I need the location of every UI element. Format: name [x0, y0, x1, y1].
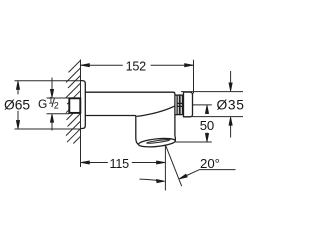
svg-text:115: 115 [109, 157, 129, 171]
G 1/2 top arrow [51, 78, 53, 91]
neck lines to collar [175, 95, 177, 115]
body top line [85, 92, 175, 141]
angle pointer left leader [140, 179, 159, 181]
wall hatching [66, 60, 81, 143]
plumb extension line [164, 145, 166, 190]
spout outlet outer rim [138, 137, 176, 148]
diameter 65 dimension line [17, 81, 19, 129]
20 degree slant line [166, 145, 182, 186]
dimension 115 line [81, 162, 165, 164]
dimension 115 left arrow [81, 161, 90, 164]
svg-text:20°: 20° [200, 156, 220, 171]
svg-text:G: G [38, 97, 47, 111]
svg-text:50: 50 [200, 118, 214, 133]
underbody taper curve [137, 106, 175, 117]
dimension 50 line [206, 105, 208, 142]
wall face line [80, 60, 82, 168]
svg-text:Ø65: Ø65 [4, 97, 30, 112]
dimension 152 right extension line [193, 60, 195, 94]
diameter 65 extension lines [15, 81, 81, 129]
angle pointer right leader [187, 170, 236, 176]
G 1/2 bottom arrow [51, 122, 53, 131]
dimension 115 right arrow [157, 161, 166, 164]
diameter 35 top arrow [230, 71, 232, 85]
diameter 65 top arrow [16, 81, 19, 89]
diameter 35 bottom arrow [230, 124, 232, 138]
G 1/2 thread square [69, 98, 80, 113]
diameter 65 bottom arrow [16, 121, 19, 129]
dimension 152 left arrow [81, 64, 90, 67]
push button [184, 92, 193, 117]
collar chamfer lines [177, 103, 182, 106]
svg-text:2: 2 [54, 100, 59, 110]
diameter 35 extension lines [181, 92, 243, 117]
body bottom line [85, 116, 138, 145]
flange (escutcheon) [81, 81, 86, 129]
dimension 152 right arrow [185, 64, 194, 67]
dimension 50 top arrow [205, 105, 208, 113]
dimension 50 extension lines [175, 105, 211, 142]
collar ring 2 [180, 95, 182, 115]
spout outlet inner rim [146, 139, 170, 144]
collar ring 1 [177, 95, 179, 115]
svg-text:Ø35: Ø35 [217, 98, 245, 113]
dimension 50 bottom arrow [205, 134, 208, 142]
dimension 152 line [81, 64, 194, 66]
svg-text:152: 152 [126, 59, 147, 73]
G 1/2 extension lines [47, 98, 70, 114]
